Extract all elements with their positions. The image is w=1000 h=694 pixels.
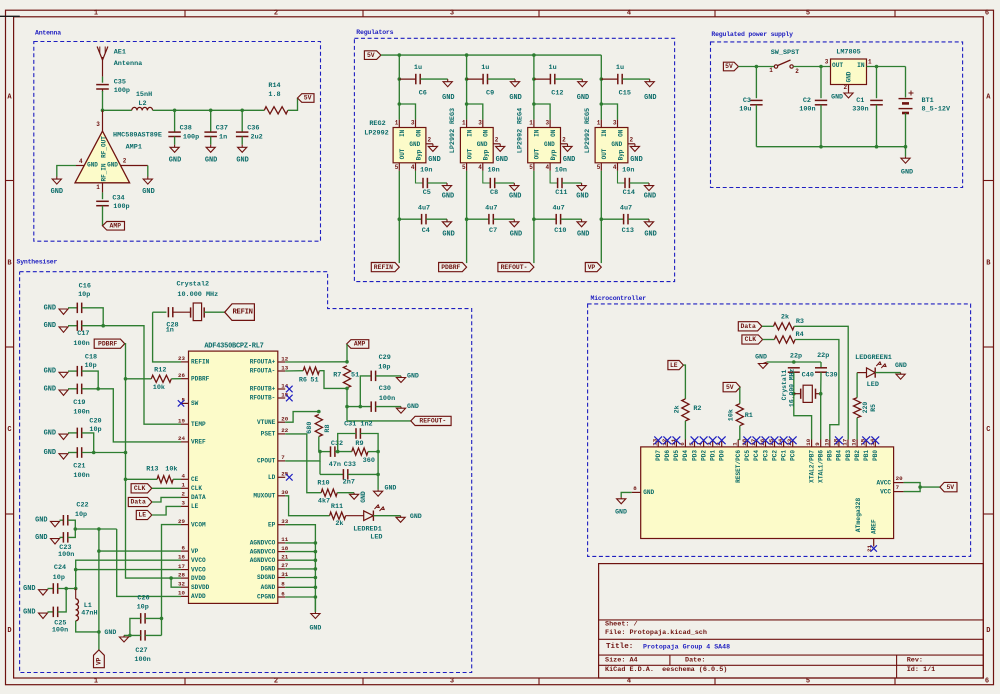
- svg-text:GND: GND: [509, 94, 521, 102]
- node DVDD junction: [169, 576, 173, 580]
- regulator REG4 pin names: [534, 129, 557, 160]
- battery BT1: [899, 91, 914, 114]
- capacitor C8 labels: [487, 167, 499, 198]
- node C26 junction: [160, 617, 164, 621]
- svg-text:2: 2: [843, 84, 847, 91]
- regulator REG4 pin stubs: [534, 120, 568, 171]
- svg-text:OUT: OUT: [399, 148, 406, 159]
- battery BT1 labels: [922, 97, 951, 114]
- wire C14 to ground: [630, 182, 650, 184]
- svg-text:1u: 1u: [616, 64, 624, 72]
- svg-text:GND: GND: [895, 362, 907, 369]
- diode LEDGREEN1 labels: [855, 354, 892, 389]
- svg-text:RF_IN: RF_IN: [101, 163, 108, 181]
- capacitor C27 labels: [134, 647, 150, 664]
- svg-text:RFOUTA-: RFOUTA-: [250, 368, 276, 375]
- node C18 C19 junction: [96, 387, 100, 391]
- svg-text:KiCad E.D.A. eeschema (6.0.5): KiCad E.D.A. eeschema (6.0.5): [605, 666, 727, 674]
- node C10 tap: [532, 217, 536, 221]
- svg-text:100n: 100n: [799, 106, 815, 114]
- svg-text:24: 24: [178, 435, 185, 442]
- svg-text:C14: C14: [623, 189, 635, 197]
- section box Antenna: [34, 42, 321, 242]
- amplifier AMP1 pin names: [87, 136, 118, 182]
- svg-text:GND: GND: [409, 141, 420, 148]
- diode LEDGREEN1: [867, 362, 887, 378]
- node C38 tap: [173, 109, 177, 113]
- wire rail down REG4: [533, 55, 535, 104]
- svg-text:PB3: PB3: [845, 450, 852, 461]
- svg-text:R5: R5: [870, 404, 877, 412]
- capacitor C34 labels: [112, 195, 129, 212]
- node VP label rail top: [97, 527, 101, 531]
- svg-text:Antenna: Antenna: [114, 60, 143, 68]
- ic ATmega328 top pin names: [655, 450, 879, 483]
- svg-text:RF_OUT: RF_OUT: [101, 136, 108, 158]
- ground REG3 pin2: [496, 144, 508, 164]
- svg-text:LP2992: LP2992: [449, 129, 457, 153]
- svg-text:10n: 10n: [487, 167, 499, 175]
- capacitor C6: [416, 74, 420, 85]
- svg-text:AVCC: AVCC: [876, 479, 891, 486]
- resistor R13: [157, 476, 173, 483]
- svg-text:33: 33: [281, 518, 288, 525]
- resistor R14 labels: [268, 82, 280, 99]
- wire vcc to 5V: [920, 486, 940, 488]
- section title Regulated power supply: [711, 31, 793, 38]
- svg-text:IN: IN: [601, 129, 608, 137]
- hier label LE synth: [136, 510, 152, 519]
- svg-text:Crystal2: Crystal2: [176, 280, 209, 288]
- svg-text:1: 1: [96, 184, 100, 191]
- svg-text:C1: C1: [856, 97, 864, 105]
- svg-text:10k: 10k: [728, 409, 736, 421]
- wire C26 right: [145, 617, 161, 619]
- svg-text:CLK: CLK: [134, 485, 146, 492]
- svg-text:8_5-12V: 8_5-12V: [922, 106, 951, 114]
- wire Data to pin: [152, 497, 181, 502]
- svg-text:GND: GND: [410, 513, 422, 520]
- capacitor C3 supply: [750, 67, 763, 147]
- wire C33 row left: [320, 473, 343, 475]
- wire R13 to CE pin: [173, 478, 181, 480]
- regulator LM7805 gnd pin: [848, 85, 850, 92]
- svg-text:LEDRED1: LEDRED1: [353, 525, 382, 533]
- svg-text:C4: C4: [422, 227, 430, 235]
- ground right of C8: [509, 183, 521, 201]
- svg-text:Protopaja Group 4 SA48: Protopaja Group 4 SA48: [643, 644, 730, 651]
- node IN-ON branch REG5: [600, 102, 604, 106]
- section box Microcontroller: [588, 304, 971, 557]
- svg-text:GND: GND: [23, 585, 35, 593]
- ground left of C24: [23, 585, 47, 595]
- ic ATmega328 gnd pin: [632, 485, 655, 496]
- ground at R10: [350, 491, 368, 503]
- wire VP row: [99, 550, 181, 552]
- resistor R5 labels: [862, 402, 877, 414]
- svg-text:DVDD: DVDD: [191, 575, 206, 582]
- capacitor C31 labels: [344, 421, 373, 429]
- svg-text:16: 16: [178, 554, 185, 561]
- svg-text:12: 12: [281, 355, 288, 362]
- node C40 top: [792, 360, 796, 364]
- svg-text:Data: Data: [741, 323, 757, 330]
- svg-text:GND: GND: [901, 169, 913, 177]
- capacitor C16 labels: [78, 283, 91, 300]
- section title Microcontroller: [591, 295, 647, 302]
- wire C5 to ground: [428, 182, 448, 184]
- svg-text:GND: GND: [35, 534, 47, 542]
- ground at EP bundle: [309, 612, 321, 632]
- wire C9 to ground: [488, 78, 515, 80]
- capacitor C25: [53, 607, 57, 618]
- svg-text:DGND: DGND: [261, 566, 276, 573]
- svg-text:Date:: Date:: [685, 656, 705, 664]
- svg-text:ON: ON: [550, 129, 557, 137]
- node IN-ON branch REG4: [532, 102, 536, 106]
- crystal Crystal2 labels: [176, 280, 218, 299]
- switch SW_SPST: [774, 60, 793, 68]
- node C22 C23 junction: [74, 527, 78, 531]
- svg-text:R9: R9: [355, 440, 363, 448]
- wire pin4 to ground: [57, 166, 76, 177]
- wire C33 right: [348, 473, 378, 475]
- svg-text:1u: 1u: [549, 64, 557, 72]
- svg-text:PB1: PB1: [863, 450, 870, 461]
- hier label CLK micro: [742, 335, 763, 344]
- svg-text:GND: GND: [544, 141, 555, 148]
- capacitor C7: [489, 214, 493, 225]
- wire C20 to junction: [82, 433, 94, 453]
- wire to C4: [399, 218, 421, 220]
- svg-text:10p: 10p: [78, 291, 90, 299]
- no-connect marks ATmega top pins: [654, 436, 879, 444]
- svg-text:3: 3: [182, 500, 186, 507]
- ground right of C15: [644, 79, 656, 102]
- svg-text:CLK: CLK: [745, 336, 757, 343]
- svg-text:17: 17: [178, 563, 185, 570]
- node 5V rail tap REG3: [465, 53, 469, 57]
- capacitor C15: [618, 74, 622, 85]
- ground left of C25: [23, 608, 47, 618]
- capacitor C23: [63, 532, 67, 543]
- section title Regulators: [356, 29, 393, 36]
- capacitor C12 labels: [549, 64, 564, 97]
- svg-text:47n: 47n: [329, 461, 341, 469]
- wire C27 left: [124, 634, 141, 636]
- resistor R3 labels: [781, 314, 804, 326]
- svg-text:18: 18: [281, 545, 288, 552]
- capacitor C10: [556, 214, 560, 225]
- wire to C6: [399, 78, 415, 80]
- svg-text:CLK: CLK: [191, 485, 202, 492]
- svg-text:REFOUT-: REFOUT-: [501, 264, 528, 271]
- wire rail down REG2: [398, 55, 400, 104]
- wire gnd to C23: [60, 536, 64, 538]
- capacitor C17 labels: [73, 330, 89, 348]
- svg-text:GND: GND: [643, 489, 654, 496]
- ground at ATmega: [615, 497, 627, 516]
- ground right of C13: [644, 219, 656, 238]
- svg-text:C8: C8: [490, 189, 498, 197]
- svg-text:PD1: PD1: [710, 450, 717, 461]
- capacitor C25 labels: [52, 620, 68, 635]
- ic ADF4350 value: [204, 342, 263, 350]
- wires ground bundle rows: [285, 541, 317, 599]
- svg-text:IN: IN: [534, 129, 541, 137]
- svg-text:C35: C35: [114, 79, 126, 87]
- svg-text:10k: 10k: [153, 384, 165, 392]
- ground left of C21: [44, 449, 68, 459]
- wire IN drop REG5: [600, 104, 602, 120]
- hier label REFOUT- synth: [411, 416, 451, 425]
- ground at C27: [104, 629, 128, 642]
- ground left of C18: [44, 368, 68, 378]
- inductor L1: [76, 589, 79, 621]
- svg-text:VVCO: VVCO: [191, 557, 206, 564]
- svg-text:PC5: PC5: [744, 450, 751, 461]
- wire antenna to C35: [102, 77, 104, 83]
- capacitor C12: [550, 74, 554, 85]
- svg-text:1: 1: [597, 120, 601, 127]
- capacitor C2 labels: [799, 97, 815, 114]
- wire R3 to PB3: [794, 326, 848, 439]
- capacitor C24: [53, 583, 57, 594]
- svg-text:2: 2: [182, 491, 186, 498]
- svg-text:4: 4: [613, 164, 617, 171]
- svg-text:6: 6: [985, 678, 989, 686]
- resistor R1 labels: [728, 409, 753, 421]
- regulator REG5 body: [595, 128, 628, 163]
- wire to C30: [347, 406, 371, 408]
- wire IN drop REG3: [466, 104, 468, 120]
- wire OUT down REG5: [600, 171, 602, 263]
- svg-text:GND: GND: [44, 385, 56, 393]
- node VP row tap: [97, 549, 101, 553]
- wire rail to R13: [126, 478, 158, 480]
- section title Antenna: [35, 29, 61, 36]
- regulator REG2 pin names: [399, 129, 422, 160]
- node rail C1: [875, 145, 879, 149]
- capacitor C40 labels: [790, 353, 814, 380]
- capacitor C19 labels: [73, 399, 89, 416]
- wire IN drop REG2: [398, 104, 400, 120]
- svg-text:C24: C24: [54, 564, 66, 572]
- ground supply rail: [901, 157, 913, 177]
- svg-text:PC3: PC3: [762, 450, 769, 461]
- svg-text:C34: C34: [112, 195, 124, 203]
- svg-text:LP2992: LP2992: [584, 129, 592, 153]
- resistor R6 labels: [299, 376, 319, 384]
- svg-text:2: 2: [562, 137, 566, 144]
- svg-text:GND: GND: [142, 188, 154, 196]
- power label 5V supply: [723, 62, 738, 71]
- node C29C30 junction: [345, 405, 349, 409]
- wire AVDD rail: [117, 529, 181, 596]
- svg-text:C: C: [7, 426, 11, 434]
- wire C4 to ground: [426, 218, 447, 220]
- svg-text:VCOM: VCOM: [191, 521, 206, 528]
- svg-text:AMP1: AMP1: [126, 144, 142, 152]
- regulator REG4 pin numbers: [529, 120, 566, 171]
- svg-text:100n: 100n: [134, 656, 150, 664]
- wire junction right: [75, 528, 116, 530]
- svg-text:10n: 10n: [420, 167, 432, 175]
- wire IN to battery: [867, 66, 906, 68]
- svg-text:3: 3: [825, 59, 829, 66]
- wire C15 to ground: [622, 78, 649, 80]
- svg-text:26: 26: [178, 372, 185, 379]
- svg-text:LP2992: LP2992: [364, 129, 388, 137]
- regulator LM7805 pin numbers: [825, 59, 872, 92]
- ground below C36: [236, 145, 248, 165]
- svg-text:30: 30: [281, 489, 288, 496]
- ground at LEDRED1: [396, 513, 422, 522]
- wire R12 to PDBRF pin: [171, 378, 181, 380]
- hier label AMP antenna: [103, 222, 125, 231]
- resistor R12: [151, 375, 171, 382]
- regulator REG3 pin names: [466, 129, 489, 160]
- sheet origin marker: [0, 15, 20, 17]
- regulator REG4 ref text: [516, 108, 524, 153]
- ic ATmega328 vcc pin: [880, 484, 903, 495]
- ground at C30: [396, 403, 419, 413]
- svg-text:R10: R10: [317, 479, 329, 487]
- regulator REG3 body: [460, 128, 493, 163]
- wire node down C33: [377, 452, 379, 475]
- capacitor C26 labels: [137, 594, 150, 611]
- svg-text:5: 5: [395, 164, 399, 171]
- node C2 top: [819, 65, 823, 69]
- svg-text:C32: C32: [331, 440, 343, 448]
- ground left of C20: [44, 429, 68, 439]
- svg-text:C18: C18: [85, 354, 97, 362]
- svg-text:2n7: 2n7: [343, 479, 355, 487]
- svg-text:ATmega328: ATmega328: [855, 498, 862, 533]
- wire MUXOUT jog: [285, 496, 329, 516]
- svg-text:8: 8: [281, 581, 285, 588]
- svg-text:OUT: OUT: [466, 148, 473, 159]
- wire battery top: [905, 67, 907, 98]
- section box Synthesiser: [20, 272, 472, 673]
- node rail battery: [904, 145, 908, 149]
- svg-text:2: 2: [629, 137, 633, 144]
- capacitor C33: [343, 469, 347, 480]
- capacitor C20: [77, 428, 81, 439]
- capacitor C35 labels: [114, 79, 130, 96]
- svg-text:5: 5: [529, 164, 533, 171]
- svg-text:R7: R7: [333, 372, 341, 380]
- capacitor C16: [77, 303, 81, 314]
- title block: [599, 564, 984, 678]
- diode LEDRED1 labels: [353, 525, 382, 541]
- ground right of C10: [577, 219, 589, 238]
- inductor L2 labels: [136, 91, 152, 108]
- svg-text:25: 25: [281, 471, 288, 478]
- wire R5 to PB2: [856, 418, 858, 440]
- svg-text:MUXOUT: MUXOUT: [253, 493, 275, 500]
- wire node to L2: [103, 109, 132, 111]
- node PDBRF rail R12: [124, 377, 128, 381]
- svg-text:GND: GND: [577, 231, 589, 239]
- capacitor C19: [77, 384, 81, 395]
- wire gnd to C24: [48, 588, 54, 590]
- svg-text:OUT: OUT: [534, 148, 541, 159]
- svg-text:R6: R6: [299, 376, 307, 384]
- wire C39 to XTAL1: [820, 372, 822, 439]
- svg-text:C16: C16: [79, 283, 91, 291]
- svg-text:LE: LE: [670, 362, 678, 369]
- capacitor C38 labels: [180, 125, 200, 142]
- svg-text:1: 1: [462, 120, 466, 127]
- svg-text:C15: C15: [619, 90, 631, 98]
- svg-text:GND: GND: [510, 231, 522, 239]
- svg-text:IN: IN: [466, 129, 473, 137]
- section title Synthesiser: [17, 259, 58, 266]
- svg-text:330n: 330n: [852, 106, 868, 114]
- capacitor C14: [625, 178, 629, 188]
- svg-text:C20: C20: [89, 418, 101, 426]
- capacitor C37: [204, 132, 217, 136]
- wire cap top rail: [767, 361, 821, 363]
- wire OUT down REG4: [533, 171, 535, 263]
- svg-text:AGNDVCO: AGNDVCO: [250, 548, 276, 555]
- switch SW_SPST labels: [769, 49, 799, 75]
- svg-text:4: 4: [545, 164, 549, 171]
- svg-text:LED: LED: [867, 381, 879, 389]
- ground below pin 4: [51, 177, 63, 197]
- wire to C13: [601, 218, 623, 220]
- svg-text:AMP: AMP: [354, 341, 366, 348]
- svg-text:PD6: PD6: [664, 450, 671, 461]
- wire gnd to C21: [68, 452, 77, 454]
- wire R6 to R7 bottom: [319, 371, 347, 389]
- node vcc junction: [918, 485, 922, 489]
- svg-text:10n: 10n: [622, 167, 634, 175]
- capacitor C40: [788, 368, 800, 372]
- svg-text:1: 1: [868, 59, 872, 66]
- svg-text:GND: GND: [644, 231, 656, 239]
- svg-text:EP: EP: [268, 521, 276, 528]
- svg-text:C7: C7: [489, 227, 497, 235]
- wire to C10: [534, 218, 556, 220]
- hier label AMP synth: [347, 340, 369, 349]
- wire tap to C37: [210, 110, 212, 132]
- capacitor C27: [141, 630, 145, 641]
- svg-text:LD: LD: [268, 474, 276, 481]
- hier label REFIN synth: [225, 304, 255, 321]
- svg-text:C30: C30: [379, 385, 391, 393]
- wire crystal to REFIN label: [204, 311, 225, 313]
- svg-text:VP: VP: [588, 264, 596, 271]
- regulator REG2 pin stubs: [399, 120, 433, 171]
- wire CPOUT jog: [285, 452, 320, 461]
- svg-text:1u: 1u: [481, 64, 489, 72]
- svg-text:14: 14: [281, 382, 288, 389]
- inductor L1 labels: [81, 602, 97, 618]
- svg-text:9: 9: [814, 442, 821, 446]
- node antenna rail junction: [101, 109, 105, 113]
- svg-text:10k: 10k: [165, 465, 177, 473]
- svg-text:R1: R1: [745, 412, 753, 420]
- ground left of C17: [44, 322, 68, 332]
- svg-text:5V: 5V: [367, 52, 375, 59]
- node C27 gnd junction: [128, 634, 132, 638]
- resistor R7: [343, 366, 350, 388]
- no-connect LD pin: [286, 474, 293, 481]
- resistor R2: [682, 399, 689, 421]
- svg-text:PB0: PB0: [872, 450, 879, 461]
